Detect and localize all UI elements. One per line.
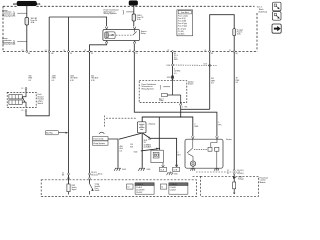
svg-text:A/C Rlys: A/C Rlys — [46, 132, 53, 135]
wire fuse-block loop to ignition node — [181, 108, 210, 110]
ground G305 — [167, 172, 173, 176]
wire W2 from bus down to PNP C2 — [26, 17, 49, 116]
wire label W7a — [174, 55, 178, 61]
svg-text:C2=48 GRY: C2=48 GRY — [136, 190, 146, 192]
wire below fuse F3 — [233, 36, 235, 51]
svg-text:5: 5 — [182, 106, 183, 108]
svg-text:C1: C1 — [204, 50, 206, 52]
svg-text:C1: C1 — [161, 187, 163, 189]
svg-text:Starter: Starter — [226, 138, 232, 141]
svg-text:C3=GRY: C3=GRY — [136, 192, 143, 194]
svg-text:C1: C1 — [21, 88, 23, 90]
wire label ignition out — [182, 106, 187, 108]
band small labels left — [98, 172, 103, 192]
terminal into band left — [67, 178, 70, 180]
svg-text:S231: S231 — [167, 77, 171, 79]
starter terminal B — [192, 136, 195, 139]
icon button 2 — [272, 12, 281, 21]
label HOT IN START (right) — [129, 1, 138, 6]
reference box Power Distribution — [93, 137, 109, 146]
connector box b1 — [160, 167, 167, 171]
ground G104 (battery) — [138, 168, 145, 171]
PCM dashed box — [201, 176, 259, 196]
brace under callout — [99, 132, 104, 134]
svg-text:START: START — [131, 3, 137, 6]
svg-text:B8: B8 — [62, 175, 64, 177]
fuse F3 — [233, 29, 243, 36]
PNP switch dashed box — [7, 92, 36, 107]
fuse block pinout table — [177, 10, 193, 36]
wire label starter case — [148, 137, 152, 149]
starter solenoid ground wire — [216, 151, 218, 169]
svg-text:Fuse Block: Fuse Block — [181, 12, 189, 14]
ground under motor — [190, 169, 195, 171]
PNP switch track upper — [9, 95, 22, 99]
svg-text:F9: F9 — [70, 53, 72, 55]
svg-text:◦C2 (BLK): ◦C2 (BLK) — [178, 34, 185, 36]
svg-text:0.35: 0.35 — [70, 80, 74, 82]
svg-text:250: 250 — [148, 145, 151, 147]
svg-text:G305: G305 — [174, 174, 178, 176]
ground G103 (left) — [114, 168, 121, 171]
svg-text:Switch: Switch — [188, 83, 193, 86]
band ID box 1 — [127, 184, 133, 189]
svg-text:C2: C2 — [227, 170, 229, 172]
svg-text:Relay: Relay — [141, 33, 146, 35]
wire label ground left — [120, 146, 124, 152]
ignition internal fuse — [162, 93, 168, 96]
starter terminal S — [216, 136, 219, 139]
starter box — [185, 139, 223, 168]
starter motor M1 — [190, 161, 195, 166]
splice S on W7 — [171, 76, 174, 78]
band ID box 2 — [135, 183, 154, 194]
bottom dashed band box — [41, 180, 196, 197]
svg-text:G104: G104 — [146, 169, 150, 171]
ignition terminal bottom — [179, 103, 182, 106]
svg-text:C2: C2 — [167, 50, 169, 52]
svg-text:C1: C1 — [63, 50, 65, 52]
splice S140 thick cable — [134, 148, 159, 154]
svg-text:CONN ID: CONN ID — [136, 184, 144, 186]
wire relay bottom-right to crossing — [133, 44, 135, 51]
wire into PNP box — [25, 89, 27, 92]
starter motor feed wire — [188, 154, 193, 161]
svg-text:F8: F8 — [91, 53, 93, 55]
crossing labels — [22, 50, 238, 55]
wire label W8 — [211, 78, 216, 84]
starter motor ground wire — [192, 166, 194, 169]
note Power Distribution (top left 1) — [2, 9, 27, 17]
PCM internal resistor — [233, 182, 236, 189]
battery B1 — [137, 122, 155, 133]
fuse F1 — [25, 18, 37, 26]
note Power Distribution (ignition box) — [141, 83, 170, 90]
svg-text:C2=BLK: C2=BLK — [170, 190, 177, 192]
battery negative diagonal to left ground — [119, 133, 142, 139]
wire W8 below connector — [209, 52, 211, 109]
fuse F2 — [132, 14, 143, 21]
svg-text:Wiring Systems: Wiring Systems — [141, 87, 154, 90]
relay terminal top-left — [105, 27, 108, 30]
fusible link enclosure — [151, 150, 163, 162]
note Power Distribution (top middle) — [104, 9, 134, 16]
svg-text:C1: C1 — [227, 173, 229, 175]
inline connector circles crank wire — [196, 170, 244, 175]
svg-text:G103: G103 — [122, 169, 126, 171]
wire label case — [178, 152, 182, 156]
label HOT AT ALL TIMES (left) — [13, 1, 40, 6]
svg-text:Signal: Signal — [72, 189, 77, 191]
svg-text:0.8: 0.8 — [211, 83, 214, 85]
wire W3 from bus down to bottom — [68, 17, 70, 180]
svg-text:+ Battery: + Battery — [148, 123, 156, 126]
relay terminal bottom-right — [133, 41, 136, 44]
svg-text:0.5: 0.5 — [28, 80, 31, 82]
svg-text:38 (0.5): 38 (0.5) — [91, 172, 97, 174]
relay terminal top-right — [133, 27, 136, 30]
svg-text:HOT AT ALL TIMES: HOT AT ALL TIMES — [13, 2, 40, 6]
svg-text:39 (0.5L): 39 (0.5L) — [237, 170, 244, 172]
PNP signal resistor — [68, 180, 70, 184]
svg-text:C1: C1 — [45, 50, 47, 52]
svg-text:Wiring Systems: Wiring Systems — [93, 142, 105, 145]
relay terminal bottom-left — [105, 41, 108, 44]
underhood fuse block dashed outline — [3, 6, 257, 51]
wire W6 relay-right down to battery bus — [134, 52, 217, 136]
icon button 3 (next arrow) — [272, 24, 281, 33]
svg-text:◦C1 (30L): ◦C1 (30L) — [178, 31, 185, 33]
ignition label right — [188, 80, 194, 85]
ground under solenoid — [214, 169, 219, 171]
wire W9 gauge fuse down — [233, 52, 235, 169]
svg-text:Underhood: Underhood — [258, 12, 267, 14]
svg-text:0.5: 0.5 — [52, 80, 55, 82]
terminal into band right — [88, 178, 91, 180]
ignition switch dashed box — [139, 81, 187, 103]
svg-text:39 (0.8L): 39 (0.8L) — [237, 173, 244, 175]
PNP switch label — [38, 94, 44, 105]
svg-text:◦Fuses 1-5 (pk): ◦Fuses 1-5 (pk) — [178, 15, 189, 17]
wire label battery negative — [144, 140, 149, 149]
relay coil inner box — [105, 32, 115, 39]
svg-text:Switch: Switch — [38, 102, 43, 105]
svg-text:Power Distrib.: Power Distrib. — [93, 137, 104, 140]
svg-text:F5: F5 — [136, 53, 138, 55]
svg-text:0.35: 0.35 — [91, 80, 95, 82]
junction dot ignition/bus — [180, 116, 181, 117]
starter solenoid feed wire — [211, 139, 217, 147]
svg-text:◦B x 27 (yel): ◦B x 27 (yel) — [178, 28, 187, 30]
band ID box 4 — [169, 183, 188, 194]
svg-text:Wiring Systems: Wiring Systems — [104, 12, 117, 15]
right loop wire in fuse block — [210, 15, 235, 51]
svg-text:250: 250 — [130, 144, 133, 146]
wire from fuse F2 to relay terminal — [133, 21, 135, 26]
svg-text:0.5: 0.5 — [174, 73, 177, 75]
wire W4 from HOT IN START down — [133, 5, 135, 14]
wire ref box to ground — [108, 139, 118, 168]
wire label battery negative left — [130, 144, 134, 148]
connector box b2 — [173, 167, 180, 171]
PCM label — [260, 176, 269, 183]
svg-text:CONN ID: CONN ID — [170, 184, 178, 186]
wire W1 below fuse F1 — [26, 25, 28, 51]
svg-text:C1=BLU: C1=BLU — [136, 187, 143, 189]
svg-text:◦Fuse 34 (R): ◦Fuse 34 (R) — [178, 21, 187, 23]
inline connector on W8 (x=209.7) — [203, 63, 217, 66]
battery to starter case wire — [143, 133, 177, 166]
battery bus wire — [142, 117, 193, 136]
svg-text:E6: E6 — [211, 53, 213, 55]
A/C relay callout — [45, 131, 68, 135]
svg-text:PPL: PPL — [218, 124, 221, 126]
connector C2 circle — [25, 110, 27, 112]
wire W7 — [172, 52, 174, 80]
wire W1 from HOT AT ALL TIMES down — [26, 6, 28, 18]
wire label W2 — [52, 75, 57, 81]
bus wire to relay — [49, 17, 106, 26]
relay K1 label — [141, 30, 147, 35]
icon button 1 — [272, 2, 281, 11]
svg-text:C1=BLU: C1=BLU — [170, 187, 177, 189]
wire b1 stub — [162, 163, 164, 166]
svg-text:C1: C1 — [129, 50, 131, 52]
bottom-left connector circles — [68, 173, 70, 175]
dashed callout to battery — [104, 116, 136, 127]
svg-text:C1: C1 — [229, 50, 231, 52]
crank voltage arrow — [233, 176, 236, 178]
svg-text:E8: E8 — [236, 53, 238, 55]
wire fusible drop from bus — [158, 117, 160, 150]
svg-text:C1: C1 — [84, 50, 86, 52]
band ID box 3 — [160, 184, 166, 189]
svg-text:◦Fuse 30 (L): ◦Fuse 30 (L) — [178, 18, 187, 20]
wire label W3 — [70, 75, 78, 81]
connector C1 circle — [25, 88, 27, 90]
ignition internal wires — [167, 80, 181, 102]
svg-text:S140: S140 — [134, 151, 138, 153]
PCM internal wire end — [233, 189, 235, 193]
wire label W5 — [91, 75, 99, 81]
svg-text:B: B — [98, 184, 99, 186]
wire from ignition to bus — [180, 105, 182, 117]
wire label starter S — [218, 122, 221, 126]
svg-text:C2: C2 — [21, 110, 23, 112]
battery negative down wire — [141, 133, 143, 168]
inline connector C200 — [166, 64, 208, 67]
wire relay bottom-left to crossing — [90, 44, 107, 51]
svg-text:C1: C1 — [62, 173, 64, 175]
svg-text:0.5: 0.5 — [236, 82, 239, 84]
svg-text:50: 50 — [148, 137, 150, 139]
starter case terminal — [175, 165, 178, 167]
ignition terminal top — [171, 77, 174, 80]
crossing connector circles on fuse block bottom edge — [26, 51, 235, 53]
wire crank into PCM — [233, 174, 235, 182]
wire label W1 — [28, 75, 32, 81]
starter solenoid contact — [187, 139, 208, 153]
svg-text:C1: C1 — [22, 50, 24, 52]
wire label W7b — [174, 68, 181, 74]
relay coil element — [106, 33, 108, 38]
PNP internal wires — [22, 92, 26, 107]
note Power Distribution (top left 2) — [2, 37, 27, 45]
svg-text:YEL: YEL — [184, 106, 187, 108]
wire label W9 — [236, 78, 240, 84]
terminal above b1 — [162, 165, 165, 167]
crank switch in band — [89, 180, 91, 184]
relay K1 box — [103, 30, 140, 41]
junction dot fusible drop — [159, 148, 161, 150]
svg-text:Voltage: Voltage — [238, 178, 244, 181]
svg-text:C200: C200 — [166, 65, 170, 67]
relay contact line — [108, 30, 136, 36]
svg-text:Module: Module — [260, 182, 266, 184]
note top right (box label) — [257, 7, 268, 14]
svg-text:0.5: 0.5 — [120, 150, 123, 152]
wire W5 down from relay-left crossing — [89, 52, 91, 173]
svg-text:C2: C2 — [127, 187, 129, 189]
PNP switch track lower — [9, 100, 22, 104]
wire label starter B+ — [194, 124, 198, 128]
svg-text:Posn: Posn — [95, 188, 99, 190]
starter solenoid windings — [208, 147, 212, 151]
